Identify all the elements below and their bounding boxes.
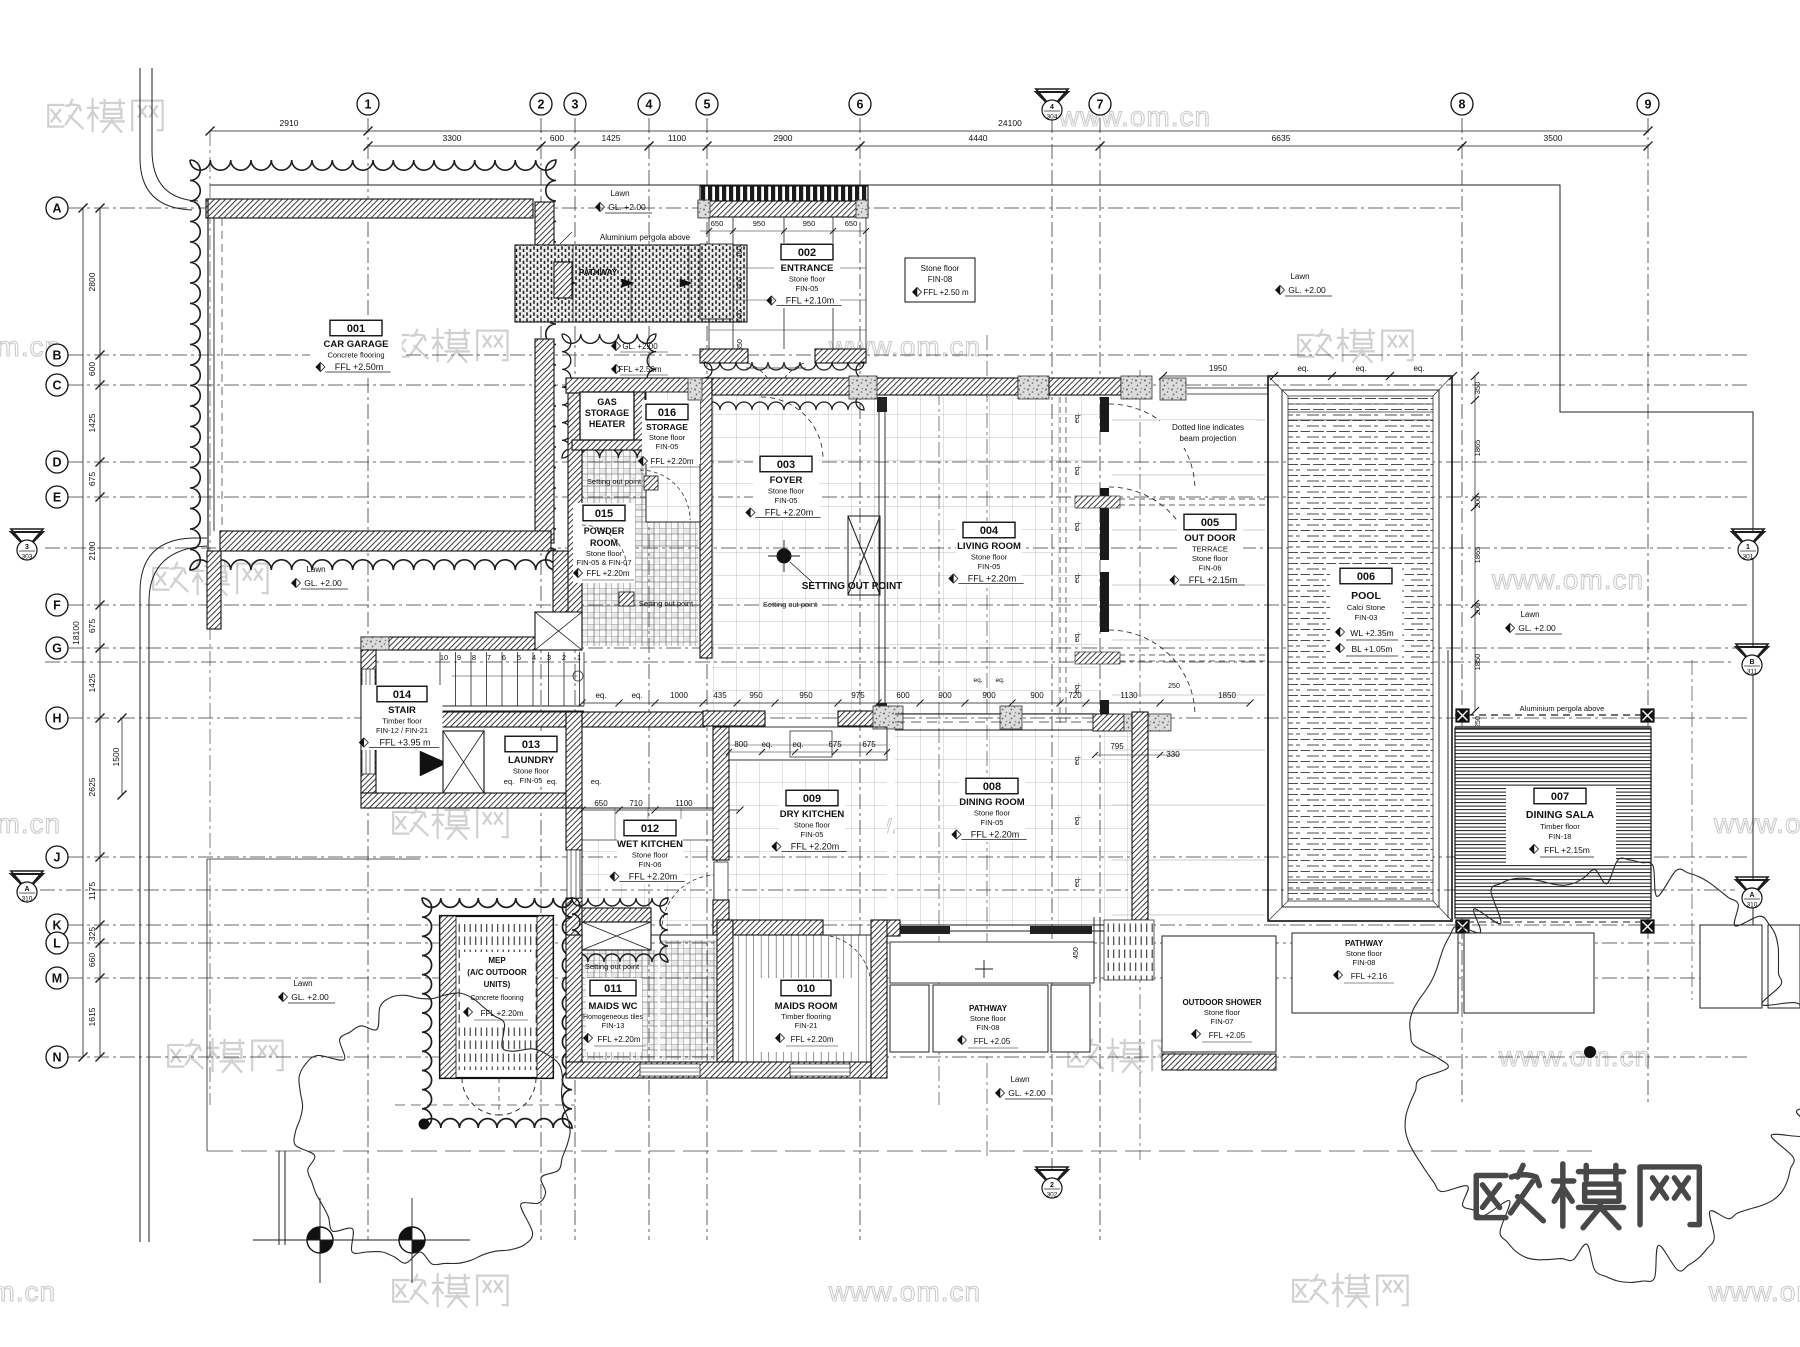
svg-text:GL. +2.00: GL. +2.00 [1008,1088,1046,1098]
svg-text:015: 015 [595,508,613,520]
svg-text:1865: 1865 [1473,547,1482,564]
svg-text:Lawn: Lawn [610,189,629,198]
svg-text:4440: 4440 [969,133,988,143]
svg-text:eq.: eq. [761,740,772,749]
svg-text:WET KITCHEN: WET KITCHEN [617,839,683,850]
svg-text:Stone floor: Stone floor [1192,554,1229,563]
svg-text:FFL +2.20m: FFL +2.20m [629,872,677,882]
svg-text:Stone floor: Stone floor [649,433,686,442]
svg-text:F: F [53,599,61,613]
svg-text:1865: 1865 [1473,440,1482,457]
svg-text:6: 6 [857,98,864,112]
svg-text:FFL +2.15m: FFL +2.15m [1544,845,1590,855]
svg-text:600: 600 [550,133,564,143]
svg-text:Setting out point: Setting out point [763,600,818,609]
svg-text:FFL +2.16: FFL +2.16 [1351,972,1388,981]
svg-text:1425: 1425 [87,413,97,432]
svg-text:200: 200 [1473,496,1482,509]
svg-text:3: 3 [547,653,551,662]
svg-text:FFL +2.20m: FFL +2.20m [586,569,629,578]
svg-text:301: 301 [1743,554,1754,561]
svg-text:006: 006 [1357,571,1375,583]
svg-text:LAUNDRY: LAUNDRY [508,755,555,766]
svg-text:675: 675 [862,740,876,749]
svg-text:E: E [53,491,61,505]
svg-text:M: M [52,972,62,986]
svg-text:Concrete flooring: Concrete flooring [327,351,384,360]
svg-text:302: 302 [1047,1192,1058,1199]
svg-text:www.om.cn: www.om.cn [1498,1041,1651,1072]
svg-text:3: 3 [572,98,579,112]
svg-text:N: N [52,1051,61,1065]
svg-text:FIN-05: FIN-05 [981,818,1004,827]
svg-text:eq.: eq. [1072,815,1081,825]
svg-text:FFL +2.50m: FFL +2.50m [618,365,661,374]
svg-text:004: 004 [980,525,999,537]
svg-text:DRY KITCHEN: DRY KITCHEN [780,809,845,820]
svg-text:ENTRANCE: ENTRANCE [781,263,834,274]
svg-text:PATHWAY: PATHWAY [1345,939,1384,948]
svg-text:1: 1 [577,653,581,662]
svg-text:eq.: eq. [973,677,982,684]
svg-text:beam projection: beam projection [1180,434,1237,443]
svg-text:eq.: eq. [595,691,606,700]
svg-text:Setting out point: Setting out point [587,477,642,486]
svg-text:PATHWAY: PATHWAY [579,268,618,277]
svg-text:A: A [1749,892,1754,899]
svg-text:310: 310 [22,896,33,903]
svg-text:1130: 1130 [1120,691,1138,700]
svg-text:2: 2 [562,653,566,662]
svg-text:950: 950 [749,691,763,700]
svg-text:6: 6 [502,653,506,662]
svg-text:7: 7 [487,653,491,662]
svg-text:FIN-06: FIN-06 [639,860,662,869]
svg-text:MAIDS WC: MAIDS WC [588,1001,637,1012]
svg-text:4: 4 [1050,104,1054,111]
svg-text:FIN-05: FIN-05 [978,562,1001,571]
svg-text:660: 660 [87,953,97,967]
svg-text:675: 675 [828,740,842,749]
svg-text:600: 600 [737,310,744,322]
svg-text:435: 435 [713,691,727,700]
svg-text:10: 10 [440,653,448,662]
svg-text:B: B [1749,659,1754,666]
svg-text:Lawn: Lawn [306,565,325,574]
svg-text:330: 330 [1166,750,1180,759]
svg-text:710: 710 [629,799,643,808]
svg-text:GL. +2.00: GL. +2.00 [291,992,329,1002]
svg-text:FFL +2.20m: FFL +2.20m [597,1035,640,1044]
svg-text:9: 9 [1645,98,1652,112]
svg-text:FFL +2.05: FFL +2.05 [974,1037,1011,1046]
svg-text:FIN-05: FIN-05 [796,284,819,293]
svg-text:eq.: eq. [591,777,601,786]
svg-text:1850: 1850 [1218,691,1236,700]
svg-text:POOL: POOL [1351,590,1381,602]
svg-text:H: H [52,712,61,726]
svg-text:2100: 2100 [87,541,97,560]
svg-text:1000: 1000 [670,691,688,700]
svg-text:8: 8 [1459,98,1466,112]
svg-text:Setting out point: Setting out point [639,599,694,608]
svg-text:LIVING ROOM: LIVING ROOM [957,541,1021,552]
svg-text:FIN-03: FIN-03 [1355,613,1378,622]
svg-text:675: 675 [87,472,97,486]
svg-text:UNITS): UNITS) [484,980,511,989]
svg-text:5: 5 [517,653,521,662]
svg-text:FIN-07: FIN-07 [1211,1017,1234,1026]
svg-text:3500: 3500 [1544,133,1563,143]
svg-text:650: 650 [594,799,608,808]
svg-text:FIN-08: FIN-08 [977,1023,1000,1032]
svg-text:Aluminium pergola above: Aluminium pergola above [1520,704,1605,713]
svg-text:D: D [52,456,61,470]
svg-text:B: B [52,349,61,363]
svg-text:1: 1 [365,98,372,112]
svg-text:Timber flooring: Timber flooring [781,1012,831,1021]
svg-text:www.om.cn: www.om.cn [1058,101,1211,132]
svg-text:Stone floor: Stone floor [970,1014,1007,1023]
svg-text:016: 016 [658,407,676,419]
svg-text:8: 8 [472,653,476,662]
svg-text:Concrete flooring: Concrete flooring [470,995,523,1002]
svg-text:MEP: MEP [488,956,506,965]
svg-text:012: 012 [641,823,659,835]
svg-text:FFL +2.20m: FFL +2.20m [791,842,839,852]
svg-text:C: C [52,379,61,393]
svg-text:FIN-05: FIN-05 [520,776,543,785]
svg-text:304: 304 [1047,114,1058,121]
svg-text:FIN-05 & FIN-07: FIN-05 & FIN-07 [576,558,631,567]
svg-text:2625: 2625 [87,777,97,796]
svg-text:eq.: eq. [1072,755,1081,765]
svg-text:eq.: eq. [1072,521,1081,531]
svg-text:3300: 3300 [443,133,462,143]
svg-text:FIN-05: FIN-05 [775,496,798,505]
svg-text:Timber floor: Timber floor [1540,822,1580,831]
svg-text:002: 002 [798,247,816,259]
svg-text:1425: 1425 [87,673,97,692]
svg-text:650: 650 [711,219,724,228]
svg-text:www.om.cn: www.om.cn [1708,1276,1800,1307]
svg-text:FFL +2.15m: FFL +2.15m [1189,575,1237,585]
svg-text:ROOM: ROOM [590,538,618,548]
svg-text:STORAGE: STORAGE [646,422,688,432]
svg-text:OUTDOOR SHOWER: OUTDOOR SHOWER [1182,998,1261,1007]
svg-text:Setting out point: Setting out point [585,962,640,971]
svg-text:4: 4 [532,653,536,662]
svg-text:5: 5 [704,98,711,112]
svg-text:Lawn: Lawn [1010,1075,1029,1084]
svg-text:Stone floor: Stone floor [513,767,550,776]
svg-text:TERRACE: TERRACE [1192,545,1228,554]
svg-text:FFL +2.20m: FFL +2.20m [765,508,813,518]
svg-text:FFL +2.05: FFL +2.05 [1209,1031,1246,1040]
svg-text:FFL +2.20m: FFL +2.20m [790,1035,833,1044]
svg-text:SETTING OUT POINT: SETTING OUT POINT [802,581,903,592]
svg-text:A: A [52,202,61,216]
svg-text:1950: 1950 [1209,364,1227,373]
svg-text:950: 950 [803,219,816,228]
svg-text:G: G [52,642,62,656]
svg-text:3: 3 [25,544,29,551]
svg-text:eq.: eq. [1072,413,1081,423]
svg-text:A: A [24,886,29,893]
svg-text:975: 975 [851,691,865,700]
svg-text:FFL +2.50 m: FFL +2.50 m [923,288,969,297]
svg-text:FFL +2.10m: FFL +2.10m [786,296,834,306]
svg-text:HEATER: HEATER [589,419,626,429]
svg-text:4: 4 [646,98,653,112]
svg-text:STORAGE: STORAGE [585,408,629,418]
svg-text:FFL +2.50m: FFL +2.50m [335,362,383,372]
svg-text:600: 600 [737,277,744,289]
svg-text:www.om.cn: www.om.cn [0,1276,56,1307]
svg-text:2: 2 [1050,1182,1054,1189]
svg-text:1425: 1425 [602,133,621,143]
svg-text:2900: 2900 [774,133,793,143]
svg-text:1850: 1850 [1473,654,1482,671]
svg-text:Timber floor: Timber floor [382,717,422,726]
svg-text:675: 675 [87,619,97,633]
svg-text:003: 003 [777,459,795,471]
svg-text:FIN-13: FIN-13 [602,1021,625,1030]
svg-text:Stone floor: Stone floor [974,809,1011,818]
svg-text:K: K [52,919,61,933]
svg-text:eq.: eq. [1413,364,1424,373]
svg-text:310: 310 [1747,902,1758,909]
svg-text:Stone floor: Stone floor [971,553,1008,562]
svg-text:OUT DOOR: OUT DOOR [1184,533,1235,544]
svg-text:6635: 6635 [1272,133,1291,143]
svg-text:(A/C OUTDOOR: (A/C OUTDOOR [467,968,527,977]
svg-text:FIN-12 / FIN-21: FIN-12 / FIN-21 [376,726,428,735]
svg-text:350: 350 [1473,382,1482,395]
svg-text:1175: 1175 [87,882,97,901]
svg-text:600: 600 [896,691,910,700]
svg-text:FOYER: FOYER [770,475,803,486]
svg-text:eq.: eq. [1072,632,1081,642]
svg-text:720: 720 [1068,691,1082,700]
svg-text:www.om.cn: www.om.cn [828,1276,981,1307]
svg-text:450: 450 [1073,947,1080,959]
svg-text:Homogeneous tiles: Homogeneous tiles [583,1014,643,1021]
svg-text:FFL +2.20m: FFL +2.20m [968,574,1016,584]
svg-text:200: 200 [1473,603,1482,616]
svg-text:014: 014 [393,689,412,701]
svg-text:008: 008 [983,781,1001,793]
svg-text:STAIR: STAIR [388,705,416,716]
svg-text:www.om.cn: www.om.cn [0,808,61,839]
svg-text:GL. +2.00: GL. +2.00 [608,202,646,212]
svg-text:eq.: eq. [1297,364,1308,373]
svg-text:1100: 1100 [675,799,693,808]
svg-text:1500: 1500 [111,747,121,766]
svg-text:2910: 2910 [280,118,299,128]
svg-text:Stone floor: Stone floor [789,275,826,284]
svg-text:Lawn: Lawn [1520,610,1539,619]
svg-text:2: 2 [538,98,545,112]
svg-text:950: 950 [799,691,813,700]
svg-text:Lawn: Lawn [1290,272,1309,281]
svg-text:900: 900 [938,691,952,700]
svg-text:WL +2.35m: WL +2.35m [1350,628,1393,638]
svg-text:1615: 1615 [87,1007,97,1026]
svg-text:FFL +2.20m: FFL +2.20m [971,830,1019,840]
svg-text:Dotted line indicates: Dotted line indicates [1172,423,1244,432]
svg-text:001: 001 [347,323,365,335]
svg-text:600: 600 [87,362,97,376]
svg-text:FFL +2.20m: FFL +2.20m [650,457,693,466]
svg-text:1100: 1100 [668,133,687,143]
svg-text:Stone floor: Stone floor [794,821,831,830]
svg-text:MAIDS ROOM: MAIDS ROOM [775,1001,838,1012]
svg-text:160: 160 [737,246,744,258]
svg-text:eq.: eq. [995,677,1004,684]
svg-text:eq.: eq. [631,691,642,700]
svg-text:J: J [54,851,61,865]
svg-text:18100: 18100 [71,621,81,645]
svg-text:eq.: eq. [1072,573,1081,583]
svg-text:900: 900 [1030,691,1044,700]
svg-text:eq.: eq. [504,777,514,786]
svg-text:eq.: eq. [1072,877,1081,887]
svg-text:900: 900 [982,691,996,700]
svg-text:650: 650 [845,219,858,228]
svg-text:FIN-06: FIN-06 [1199,564,1222,573]
svg-text:CAR GARAGE: CAR GARAGE [324,339,389,350]
svg-text:GL. +2.00: GL. +2.00 [622,342,658,351]
svg-text:Stone floor: Stone floor [1346,949,1383,958]
svg-text:FIN-08: FIN-08 [1353,958,1376,967]
svg-text:250: 250 [1168,683,1180,690]
svg-text:FIN-05: FIN-05 [656,442,679,451]
svg-text:FIN-18: FIN-18 [1549,832,1572,841]
svg-text:013: 013 [522,739,540,751]
svg-text:303: 303 [22,554,33,561]
svg-text:795: 795 [1110,742,1124,751]
svg-text:Lawn: Lawn [293,979,312,988]
svg-text:950: 950 [753,219,766,228]
svg-text:eq.: eq. [1355,364,1366,373]
svg-text:Stone floor: Stone floor [768,487,805,496]
svg-text:GL. +2.00: GL. +2.00 [304,578,342,588]
svg-text:eq.: eq. [792,740,803,749]
svg-text:www.om.cn: www.om.cn [1713,808,1800,839]
svg-text:800: 800 [734,740,748,749]
svg-text:eq.: eq. [547,777,557,786]
svg-text:FIN-08: FIN-08 [928,275,953,284]
svg-text:FIN-05: FIN-05 [801,830,824,839]
svg-text:GL. +2.00: GL. +2.00 [1518,623,1556,633]
svg-text:Stone floor: Stone floor [1204,1008,1241,1017]
svg-text:311: 311 [1747,669,1758,676]
svg-text:011: 011 [604,983,622,995]
svg-text:010: 010 [797,983,815,995]
svg-text:Stone floor: Stone floor [586,549,623,558]
svg-text:GL. +2.00: GL. +2.00 [1288,285,1326,295]
svg-text:325: 325 [87,927,97,941]
svg-text:FIN-21: FIN-21 [795,1021,818,1030]
svg-text:DINING ROOM: DINING ROOM [959,797,1025,808]
svg-text:2800: 2800 [87,272,97,291]
svg-text:FFL +3.95 m: FFL +3.95 m [380,738,431,748]
svg-text:24100: 24100 [998,118,1022,128]
svg-text:L: L [53,937,61,951]
svg-text:009: 009 [803,793,821,805]
svg-text:Stone floor: Stone floor [632,851,669,860]
svg-text:eq.: eq. [1072,465,1081,475]
svg-text:GAS: GAS [597,397,617,407]
svg-text:007: 007 [1551,791,1569,803]
svg-text:Aluminium pergola above: Aluminium pergola above [600,233,691,242]
svg-text:Stone floor: Stone floor [921,264,960,273]
svg-text:1: 1 [1746,544,1750,551]
svg-text:BL +1.05m: BL +1.05m [1351,644,1392,654]
svg-text:DINING SALA: DINING SALA [1526,809,1595,821]
svg-text:PATHWAY: PATHWAY [969,1004,1008,1013]
svg-text:005: 005 [1201,517,1219,529]
svg-text:www.om.cn: www.om.cn [1491,564,1644,595]
svg-text:9: 9 [457,653,461,662]
svg-text:Calci Stone: Calci Stone [1347,603,1385,612]
svg-text:7: 7 [1097,98,1104,112]
